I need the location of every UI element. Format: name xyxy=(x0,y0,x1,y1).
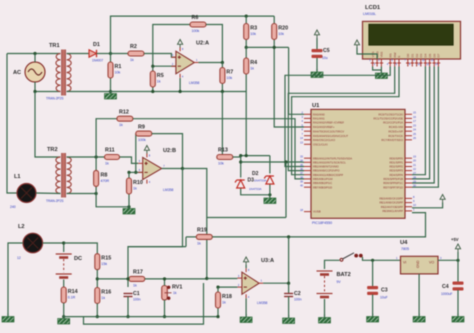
svg-text:L2: L2 xyxy=(18,224,25,230)
wire R9 feedback left xyxy=(135,134,137,173)
svg-text:1k: 1k xyxy=(105,162,109,166)
wire DC bottom to R14 xyxy=(63,280,65,288)
svg-text:C1: C1 xyxy=(133,291,140,297)
svg-text:15k: 15k xyxy=(101,262,107,266)
resistor R5 xyxy=(150,71,163,87)
wire LCD D6 to PIC RD6 xyxy=(412,67,434,184)
wire R6 right to output node xyxy=(206,25,222,63)
svg-text:100k: 100k xyxy=(192,29,200,33)
resistor R13 xyxy=(217,148,233,166)
wire R20 leads xyxy=(273,16,275,47)
node output / R6 / R7 xyxy=(221,61,224,64)
svg-text:1k: 1k xyxy=(197,241,201,245)
wire C4 leads xyxy=(457,260,459,282)
wire R4 leads xyxy=(245,47,247,91)
ground C5 xyxy=(311,69,323,78)
node R7 bottom on rail xyxy=(221,90,224,93)
capacitor C4 xyxy=(453,282,464,291)
wire switch to U4 VI xyxy=(363,257,401,260)
zener diode D2 1N4733A xyxy=(235,180,245,188)
svg-text:R4: R4 xyxy=(250,60,257,66)
wire node up to top rail xyxy=(111,16,275,53)
node R16 bottom xyxy=(96,315,99,318)
wire R12 left vertical xyxy=(96,119,117,157)
svg-text:D2: D2 xyxy=(252,171,259,177)
battery DC BAT1 xyxy=(56,254,72,278)
svg-text:470R: 470R xyxy=(101,179,110,183)
wire BAT2 top to switch xyxy=(325,260,340,269)
node R5 bottom xyxy=(151,90,154,93)
svg-text:10k: 10k xyxy=(218,162,224,166)
LCD pin name labels xyxy=(371,50,441,57)
wire R7 bottom down to R13 xyxy=(217,92,223,158)
node R19 / U3 output column xyxy=(287,235,290,238)
node zener bottoms xyxy=(268,193,271,196)
wire R12 to PIC RB5 xyxy=(133,119,304,179)
node top rail R3 xyxy=(245,15,248,18)
svg-text:PIC18F4550: PIC18F4550 xyxy=(312,221,332,225)
svg-text:E: E xyxy=(397,55,401,57)
svg-text:AC: AC xyxy=(13,70,21,76)
resistor R18 xyxy=(216,292,232,308)
svg-text:9V: 9V xyxy=(337,280,342,284)
power +V LCD VDD xyxy=(354,40,359,48)
wire branch y217 to PIC column xyxy=(207,217,286,219)
svg-text:1000uF: 1000uF xyxy=(441,292,453,296)
wire LCD D5 to PIC RD5 xyxy=(412,67,430,179)
svg-text:1k: 1k xyxy=(173,291,177,295)
capacitor C3 xyxy=(367,286,378,295)
svg-text:VI: VI xyxy=(403,261,406,265)
resistor R20 xyxy=(272,24,288,40)
wire LCD RW to PIC RB3 xyxy=(288,67,394,171)
svg-text:GND: GND xyxy=(416,260,420,268)
capacitor C5 xyxy=(312,49,323,58)
power +V MCLR xyxy=(440,195,445,203)
resistor R1 xyxy=(108,62,121,78)
resistor R7 xyxy=(220,68,233,84)
wire C2 bottom xyxy=(288,297,290,318)
wire R10 leads xyxy=(128,172,130,206)
node AC top junction xyxy=(33,52,36,55)
ground TR1 secondary xyxy=(105,91,117,100)
wire -in to R10 top xyxy=(129,171,143,173)
wire R9 right to output xyxy=(152,134,183,169)
wire sec bottom to R10 ground node xyxy=(96,194,129,207)
wire R19 left drop xyxy=(185,237,187,247)
wire BAT2 bottom to ground xyxy=(324,299,326,317)
op-amp U2:A xyxy=(171,41,209,86)
microcontroller U1 PIC18F4550 xyxy=(311,109,405,218)
potentiometer RV1 xyxy=(162,286,172,301)
svg-text:+5V: +5V xyxy=(451,237,459,242)
node R14 bottom xyxy=(62,315,65,318)
ground U2:B input xyxy=(123,206,135,215)
svg-text:R2: R2 xyxy=(130,44,137,50)
node R15/R16 junction xyxy=(96,277,99,280)
wire U4 VO to +5V node xyxy=(438,259,458,261)
svg-text:DC: DC xyxy=(74,256,82,262)
node DC top xyxy=(62,241,65,244)
svg-text:LM358: LM358 xyxy=(257,301,267,305)
resistor R12 xyxy=(117,110,133,128)
ground LCD xyxy=(375,70,387,79)
power +V U2:B xyxy=(144,146,149,154)
node wire B / PIC column xyxy=(284,160,287,163)
battery BAT2 xyxy=(317,271,333,297)
AC source V1 xyxy=(25,62,45,82)
wire +5V arrow stub xyxy=(457,252,459,260)
wire L2 left to ground xyxy=(8,243,23,316)
svg-text:D3: D3 xyxy=(419,53,423,57)
wire R14 bottom xyxy=(63,303,65,317)
svg-text:TR1: TR1 xyxy=(49,43,60,49)
capacitor C1 xyxy=(124,294,133,297)
wire output branch down to C-filter xyxy=(128,169,183,288)
wire C3 leads xyxy=(372,260,374,287)
svg-text:VUSB: VUSB xyxy=(313,210,321,214)
svg-text:U3:A: U3:A xyxy=(261,258,274,264)
svg-text:100k: 100k xyxy=(138,138,146,142)
ground R14 xyxy=(58,316,70,325)
wire D2 bottom join xyxy=(241,189,270,195)
wire divider tap to R17 xyxy=(97,278,129,280)
svg-text:RC2/CCP1/P1A: RC2/CCP1/P1A xyxy=(383,121,403,125)
svg-text:LM358: LM358 xyxy=(163,188,173,192)
wire rail corner down to zener wire xyxy=(245,92,247,156)
svg-text:C2: C2 xyxy=(294,291,301,297)
wire R7 leads xyxy=(221,63,223,92)
svg-text:D7: D7 xyxy=(437,53,441,57)
wire C5 bottom xyxy=(316,58,318,71)
svg-text:R6: R6 xyxy=(192,15,199,21)
svg-text:R9: R9 xyxy=(138,124,145,130)
wire AC top rail xyxy=(7,53,61,55)
wire R3 leads xyxy=(245,16,247,47)
svg-text:R19: R19 xyxy=(197,228,207,234)
wire TR2 secondary top to R11 xyxy=(67,156,105,158)
wire AC top stub xyxy=(34,54,36,63)
svg-text:10u: 10u xyxy=(322,56,328,60)
wire DC node to R15 xyxy=(64,243,98,254)
lamp L2 xyxy=(23,233,43,253)
wire U2:A V- to rail xyxy=(179,78,181,92)
wire U2:B output xyxy=(162,168,183,170)
svg-text:1k: 1k xyxy=(133,283,137,287)
wire node to R2 xyxy=(111,53,129,55)
node U2:B -in xyxy=(134,171,137,174)
svg-text:1k: 1k xyxy=(101,296,105,300)
resistor R15 xyxy=(95,254,111,270)
svg-text:C4: C4 xyxy=(442,284,449,290)
wire TR1 secondary bottom to ground rail xyxy=(67,91,111,93)
svg-text:R14: R14 xyxy=(68,289,78,295)
transformer TR2 xyxy=(56,157,71,194)
svg-text:RV1: RV1 xyxy=(172,285,182,291)
wire D1 cathode to node xyxy=(97,53,111,55)
wire +V to RE2 xyxy=(412,203,443,208)
svg-text:TRAN-2P2S: TRAN-2P2S xyxy=(46,199,64,203)
wire LCD VSS to ground xyxy=(373,67,382,71)
svg-text:RA6/OSC2/CLKO: RA6/OSC2/CLKO xyxy=(313,138,336,142)
wire R19 right to RE3 xyxy=(212,213,425,237)
svg-text:10k: 10k xyxy=(115,71,121,75)
svg-text:10uF: 10uF xyxy=(380,296,388,300)
wire divider node xyxy=(246,46,288,48)
svg-text:C3: C3 xyxy=(381,288,388,294)
svg-text:1N4733A: 1N4733A xyxy=(254,179,267,183)
wire RV1 top xyxy=(164,279,166,286)
svg-text:R10: R10 xyxy=(133,180,143,186)
resistor R10 xyxy=(127,178,143,194)
wire PIC column down xyxy=(285,162,287,218)
wire R19 left xyxy=(186,236,196,238)
svg-text:R20: R20 xyxy=(278,26,288,32)
node RV1 top xyxy=(163,277,166,280)
svg-text:R1: R1 xyxy=(115,64,122,70)
wire C2 top xyxy=(288,283,290,293)
svg-text:R3: R3 xyxy=(250,26,257,32)
node RV1 bottom xyxy=(163,315,166,318)
svg-text:RS: RS xyxy=(388,53,392,57)
wire AC bottom to TR1 primary bottom xyxy=(35,82,61,92)
resistor R6 xyxy=(190,15,206,33)
U1 left pin stubs and labels xyxy=(304,114,311,211)
wire U3:A -in to R18 xyxy=(218,286,237,288)
svg-text:LM016L: LM016L xyxy=(363,12,376,16)
resistor R17 xyxy=(129,270,145,288)
svg-text:OSC1/CLKI: OSC1/CLKI xyxy=(313,142,328,146)
svg-text:RA2/AN2/VREF-/CVREF: RA2/AN2/VREF-/CVREF xyxy=(313,121,344,125)
svg-text:RD7/SPP7/P1D: RD7/SPP7/P1D xyxy=(383,185,403,189)
svg-text:U2:B: U2:B xyxy=(163,148,176,154)
wire R2 to U2:A +in xyxy=(144,54,176,58)
svg-text:1k: 1k xyxy=(130,58,134,62)
power +V U2:A xyxy=(178,40,183,48)
U1 right pin stubs and labels xyxy=(405,114,412,211)
wire L2 right to DC node xyxy=(43,243,64,252)
zener diode D3 1N4733A xyxy=(264,176,274,184)
svg-text:D0: D0 xyxy=(406,53,410,57)
svg-text:1k: 1k xyxy=(133,187,137,191)
svg-text:L1: L1 xyxy=(14,174,21,180)
wire R16 bottom to rail xyxy=(96,304,98,317)
wire R15 to R16 xyxy=(96,270,98,288)
svg-text:R18: R18 xyxy=(222,294,232,300)
wire C4 bottom xyxy=(457,290,459,316)
wire ground rail xyxy=(111,91,247,93)
svg-text:D1: D1 xyxy=(93,42,100,48)
node R18 top xyxy=(216,286,219,289)
resistor R14 xyxy=(61,287,77,303)
wire LCD D7 to PIC RD7 xyxy=(412,67,438,188)
svg-text:U4: U4 xyxy=(400,240,408,246)
node zener D2 drop xyxy=(239,154,242,157)
node C1 bottom xyxy=(126,315,129,318)
ground U4 xyxy=(413,314,425,323)
wire U3:A V- to ground xyxy=(245,298,247,316)
svg-text:R17: R17 xyxy=(133,270,143,276)
node wire B start xyxy=(239,160,242,163)
lamp L1 xyxy=(17,184,36,203)
svg-text:10k: 10k xyxy=(250,32,256,36)
wire R13 right to zener wire xyxy=(233,156,241,158)
svg-text:VEE: VEE xyxy=(380,51,384,57)
node R8/R12 column on R11 wire xyxy=(95,155,98,158)
wire lower return rail xyxy=(84,283,204,324)
svg-text:VO: VO xyxy=(429,261,434,265)
wire R11 to U2:B +in xyxy=(120,157,139,163)
svg-text:R15: R15 xyxy=(101,256,111,262)
power +V U3:A xyxy=(244,257,249,265)
wire R18 leads xyxy=(217,287,219,317)
wire LCD VDD supply xyxy=(357,48,377,60)
ground BAT2 xyxy=(319,315,331,324)
node U3 output / C2 xyxy=(287,282,290,285)
resistor R4 xyxy=(244,58,257,74)
wire LCD E to PIC RB4 xyxy=(292,67,399,175)
wire feedback R6 left to -in xyxy=(153,25,190,67)
wire TR2 secondary bottom xyxy=(67,193,97,195)
svg-text:RC7/RX/DT/SDO: RC7/RX/DT/SDO xyxy=(381,138,403,142)
svg-text:12: 12 xyxy=(17,256,21,260)
wire zener ground xyxy=(269,185,271,198)
node +5V / C4 xyxy=(456,259,459,262)
svg-text:R12: R12 xyxy=(119,110,129,116)
svg-text:U1: U1 xyxy=(312,103,320,109)
wire D3 leads xyxy=(269,156,271,174)
svg-text:R11: R11 xyxy=(105,148,115,154)
resistor R8 xyxy=(94,170,110,186)
resistor R16 xyxy=(95,288,111,304)
svg-text:1k: 1k xyxy=(222,301,226,305)
wire R8 leads xyxy=(95,157,97,194)
svg-text:100n: 100n xyxy=(294,298,302,302)
wire R5 leads xyxy=(152,66,154,91)
node D1 cathode / R1 top xyxy=(109,52,112,55)
wire U3:A V+ stub xyxy=(245,265,247,268)
svg-text:R8: R8 xyxy=(101,172,108,178)
node R10 bottom xyxy=(127,205,130,208)
node R3 bottom / R4 top xyxy=(245,46,248,49)
wire C5 top xyxy=(316,38,318,51)
wire zener top wire A xyxy=(241,155,270,157)
op-amp U2:B xyxy=(138,148,176,192)
svg-text:1N4733A: 1N4733A xyxy=(249,187,262,191)
resistor R3 xyxy=(244,24,257,40)
ground zeners xyxy=(264,195,276,204)
svg-text:240: 240 xyxy=(10,205,16,209)
LCD LCD1 LM016L xyxy=(363,21,461,59)
wire column to U3 output xyxy=(288,237,290,283)
resistor R19 xyxy=(196,228,212,246)
wire filter node to U3 +in xyxy=(207,278,238,280)
wire D2 leads xyxy=(240,156,242,178)
wire U4 GND pin xyxy=(418,274,420,316)
wire bottom common rail xyxy=(64,316,218,318)
wire TR1 secondary top to D1 xyxy=(67,53,89,55)
svg-text:10k: 10k xyxy=(226,76,232,80)
svg-text:1k: 1k xyxy=(157,80,161,84)
resistor R11 xyxy=(105,148,120,166)
node -in / R5 top xyxy=(151,65,154,68)
wire C3 bottom xyxy=(372,295,374,316)
wire R1 leads xyxy=(110,54,112,92)
node U2:A V- on rail xyxy=(179,90,182,93)
node rail joins wire A xyxy=(245,154,248,157)
power +5V arrow xyxy=(455,244,460,252)
wire AC down to TR2 primary xyxy=(35,92,61,158)
svg-text:0.1R: 0.1R xyxy=(68,296,76,300)
wire C1 bottom xyxy=(127,297,129,317)
svg-text:LM358: LM358 xyxy=(189,81,199,85)
svg-text:RC5/D+/VP: RC5/D+/VP xyxy=(388,129,403,133)
node C1 top xyxy=(126,277,129,280)
svg-text:R13: R13 xyxy=(218,148,228,154)
capacitor C2 xyxy=(284,294,293,297)
node U2:B output xyxy=(181,167,184,170)
wire LCD D4 to PIC RD4 xyxy=(412,67,425,175)
transformer TR1 xyxy=(56,54,71,92)
wire R17 right to filter node xyxy=(145,278,207,280)
switch SW1 xyxy=(340,253,363,261)
node R1 bottom on ground rail xyxy=(109,90,112,93)
svg-text:R5: R5 xyxy=(157,73,164,79)
svg-text:C5: C5 xyxy=(323,48,330,54)
voltage regulator U4 7805 xyxy=(401,256,439,274)
ground C2 xyxy=(283,315,295,324)
node R20 bottom crossing xyxy=(273,46,276,49)
svg-text:7805: 7805 xyxy=(401,247,409,251)
node R8 bottom xyxy=(95,192,98,195)
wire U3:A output xyxy=(263,282,289,284)
ground U3:A xyxy=(240,314,252,323)
ground L2 xyxy=(2,314,14,323)
wire R20 bottom to RA3 xyxy=(274,47,304,127)
node filter / +in xyxy=(205,277,208,280)
resistor R9 xyxy=(136,124,152,142)
wire C-filter join xyxy=(128,246,186,248)
ground C4 xyxy=(452,314,464,323)
power +V C5 xyxy=(314,30,319,38)
svg-text:100n: 100n xyxy=(133,298,141,302)
node C3 top xyxy=(371,259,374,262)
svg-text:R7: R7 xyxy=(226,70,233,76)
node AC bottom junction xyxy=(33,90,36,93)
svg-text:1k: 1k xyxy=(119,123,123,127)
svg-text:1k: 1k xyxy=(250,67,254,71)
wire RV1 bottom xyxy=(164,300,166,317)
svg-text:D5: D5 xyxy=(428,53,432,57)
svg-text:R16: R16 xyxy=(101,290,111,296)
wire U2:A output xyxy=(198,62,222,64)
svg-text:RA4/T0CKI/C1OUT/RCV: RA4/T0CKI/C1OUT/RCV xyxy=(313,129,344,133)
svg-text:10k: 10k xyxy=(278,32,284,36)
wire left rail down to L1 xyxy=(7,54,17,194)
diode D1 1N4007 xyxy=(89,50,97,57)
svg-text:TRAN-2P2S: TRAN-2P2S xyxy=(46,97,64,101)
wire LCD RS to PIC RB2 xyxy=(285,67,390,167)
wire divider to RA0 xyxy=(289,47,304,114)
svg-text:RB7/KBI3/PGD: RB7/KBI3/PGD xyxy=(313,185,332,189)
svg-text:LCD1: LCD1 xyxy=(365,5,381,11)
svg-text:U2:A: U2:A xyxy=(196,41,209,47)
wire B to PIC RB1 xyxy=(241,161,304,163)
svg-text:TR2: TR2 xyxy=(47,147,58,153)
node R18 bottom xyxy=(216,315,219,318)
wire output right then down to U3 +in xyxy=(183,169,207,279)
op-amp U3:A xyxy=(237,258,274,305)
